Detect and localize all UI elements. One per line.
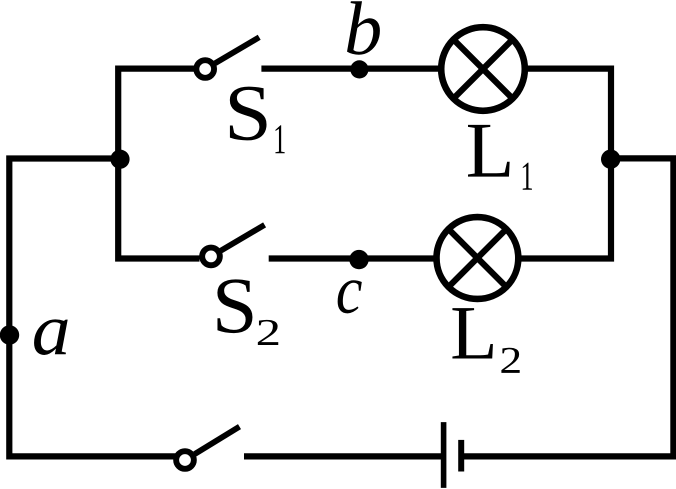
label L2 letter L — [452, 308, 492, 358]
label L2 subscript 2 — [501, 348, 519, 373]
battery: short plate (right) — [458, 440, 464, 472]
battery: long plate (left) — [441, 422, 447, 488]
label S1 letter S — [230, 87, 267, 141]
node: right junction dot — [601, 150, 620, 169]
label L1 letter L — [468, 125, 510, 177]
wire: inner-right vertical with top-branch and mid-branch stubs — [518, 69, 611, 259]
node b (junction dot) — [350, 60, 368, 78]
switch S3 (bottom, unlabeled) — [176, 427, 239, 469]
lamp L2 — [437, 217, 519, 299]
label c — [338, 280, 362, 313]
wire: inner-left vertical with top-branch and mid-branch stubs — [118, 69, 199, 259]
switch S1 — [196, 37, 259, 78]
wire: top branch middle segment (switch S1 to lamp L1) — [261, 65, 443, 71]
label S2 letter S — [217, 279, 252, 333]
node a (junction dot) — [0, 325, 19, 344]
label L1 subscript 1 — [523, 163, 532, 190]
lamp L1 — [441, 27, 525, 111]
switch S2 — [202, 225, 264, 265]
label a — [34, 319, 68, 355]
wire: mid branch middle segment (switch S2 to lamp L2) — [269, 255, 437, 261]
node: left junction dot — [110, 150, 129, 169]
label S1 subscript 1 — [275, 125, 284, 153]
node c (junction dot) — [349, 250, 368, 269]
label b — [347, 1, 380, 54]
wire: right junction connector, outer-right vertical, bottom-right segment — [461, 158, 673, 456]
wire: left junction connector, outer-left vertical, bottom-left segment — [9, 159, 176, 457]
wire: bottom middle segment (switch to battery) — [244, 453, 441, 459]
label S2 subscript 2 — [258, 320, 278, 345]
